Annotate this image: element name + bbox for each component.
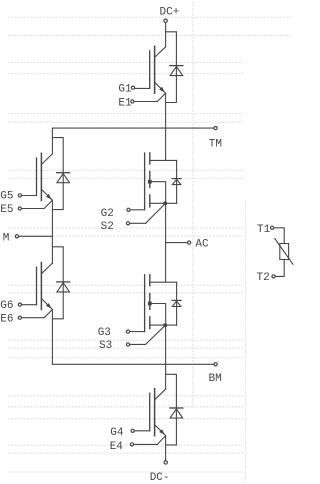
wire diode branch (52, 138, 63, 210)
svg-text:S3: S3 (99, 340, 112, 352)
diode D6 (freewheel of Q6 (lower left)) (57, 282, 70, 292)
diode D1 (freewheel of Q1 (top, DC+)) (170, 66, 183, 76)
diode D5 (freewheel of Q5 (upper left)) (57, 173, 70, 183)
svg-text:T1: T1 (257, 224, 271, 236)
transistor Q3 (lower center MOSFET) (145, 275, 177, 332)
svg-text:T2: T2 (257, 272, 270, 284)
wire left bus TM down to Q5 collector (51, 128, 53, 154)
wire DC+ bus down to Q1 collector (165, 23, 167, 47)
transistor Q4 (bottom, DC-) (150, 389, 166, 436)
transistor Q6 (lower left) (37, 263, 53, 310)
wire T1 lead (271, 226, 285, 243)
transistor Q1 (top, DC+) (150, 46, 166, 93)
svg-text:TM: TM (209, 139, 222, 151)
thermistor RT (NTC) (275, 239, 293, 265)
svg-text:E4: E4 (110, 441, 124, 453)
svg-text:DC+: DC+ (160, 6, 180, 18)
diode body diode of Q2 (upper center MOSFET) (172, 179, 181, 185)
svg-text:G3: G3 (98, 327, 111, 339)
svg-text:G2: G2 (101, 208, 114, 220)
diode D4 (freewheel of Q4 (bottom, DC-)) (170, 408, 183, 418)
wire diode branch (166, 32, 177, 103)
wire gate G5 (18, 194, 36, 197)
svg-text:DC-: DC- (150, 472, 170, 484)
wire emitter E4 (130, 436, 165, 446)
wire gate G1 (131, 86, 149, 89)
wire gate G6 (18, 303, 36, 306)
wire gate G3 (126, 330, 144, 333)
diode body diode of Q3 (lower center MOSFET) (172, 300, 181, 306)
wire emitter E6 (18, 310, 52, 320)
wire diode branch (166, 374, 177, 445)
transistor Q5 (upper left) (37, 153, 53, 200)
wire gate G4 (131, 429, 150, 432)
svg-text:G6: G6 (0, 300, 13, 312)
node DC- terminal (164, 461, 167, 464)
wire Q6 emitter down to BM rail (left bus) (51, 310, 53, 365)
svg-text:E5: E5 (0, 204, 13, 216)
svg-text:BM: BM (209, 373, 222, 385)
svg-text:G1: G1 (118, 84, 132, 96)
wire diode branch (52, 247, 63, 319)
wire Q1 emitter to TM to G2 drain (center bus) (165, 93, 167, 160)
wire Q4 emitter to DC- (center bus) (165, 436, 167, 461)
svg-text:S2: S2 (101, 221, 114, 233)
svg-text:E1: E1 (118, 98, 132, 110)
wire source S2 (126, 203, 165, 225)
wire AC stub (166, 241, 191, 244)
transistor Q2 (upper center MOSFET) (145, 153, 177, 210)
wire gate G2 (127, 208, 145, 211)
svg-text:G4: G4 (110, 427, 124, 439)
wire emitter E1 (131, 93, 166, 103)
wire BM rail (52, 363, 217, 366)
node DC+ terminal (164, 19, 167, 22)
wire G3 source to BM to Q4 collector (center bus) (165, 325, 167, 389)
wire T2 lead (272, 260, 284, 279)
svg-text:AC: AC (195, 238, 209, 250)
wire source S3 (126, 325, 165, 346)
svg-text:M: M (3, 232, 10, 244)
wire Q5 emitter to M to Q6 collector (left bus) (51, 200, 53, 263)
wire G2 source to AC to G3 drain (center bus) (165, 203, 167, 282)
svg-text:G5: G5 (0, 191, 13, 203)
wire TM rail (52, 127, 217, 130)
wire M stub (15, 235, 52, 238)
wire emitter E5 (18, 200, 52, 210)
svg-text:E6: E6 (0, 313, 13, 325)
